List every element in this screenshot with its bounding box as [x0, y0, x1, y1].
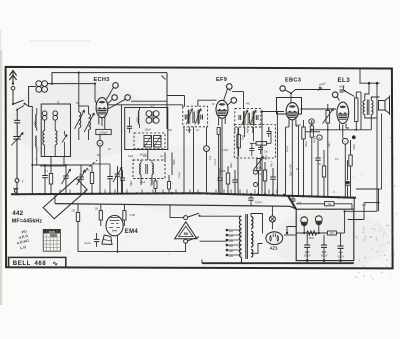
- svg-text:165: 165: [229, 244, 234, 248]
- band switch S1 (aerial): [14, 100, 24, 104]
- svg-text:250: 250: [71, 209, 76, 212]
- wire EM4 cathode down: [117, 236, 119, 252]
- EF9 cathode resistor: [217, 128, 220, 135]
- tone switch blade: [345, 91, 355, 97]
- svg-text:0,1µF: 0,1µF: [286, 145, 289, 152]
- electrolytic can 1: [301, 217, 308, 224]
- wires detector box: [253, 127, 255, 141]
- wire vertical drops to OT: [365, 83, 369, 100]
- oscillator wound coil B: [154, 136, 162, 148]
- oscillator series capacitor: [127, 125, 132, 127]
- dial drive dashed link: [76, 160, 97, 178]
- IFT1 secondary coil: [197, 111, 199, 124]
- svg-text:50µF: 50µF: [186, 129, 192, 132]
- wire OT to speaker: [371, 97, 379, 101]
- IFT1 primary coil: [188, 111, 190, 124]
- resistor R4 mid: [226, 173, 229, 184]
- volume potentiometer: [257, 159, 260, 171]
- svg-text:25µF +40V: 25µF +40V: [290, 164, 293, 176]
- EBC3 base pins: [288, 120, 290, 128]
- mains transformer primary winding: [239, 216, 241, 257]
- svg-text:L.Pot: L.Pot: [270, 161, 273, 167]
- output transformer core: [366, 100, 368, 116]
- IFT2 primary coil: [243, 112, 245, 125]
- wire OT secondary down: [370, 115, 372, 130]
- right section of ground bus: [288, 196, 356, 198]
- EM4 feed resistor left: [99, 211, 102, 220]
- circled node c under EL3: [342, 138, 348, 144]
- svg-text:0,5M: 0,5M: [295, 124, 301, 127]
- oscillator wound coil A: [144, 136, 152, 148]
- svg-text:50: 50: [184, 231, 189, 236]
- svg-text:AZ1: AZ1: [270, 245, 279, 250]
- svg-text:0,05µF: 0,05µF: [99, 131, 108, 135]
- EM4 target shade: [102, 235, 112, 245]
- svg-text:0,1µF: 0,1µF: [255, 200, 262, 204]
- svg-text:0,1: 0,1: [45, 169, 49, 173]
- oscillator top coil pair (circle style): [146, 111, 152, 117]
- capacitor C9 mid: [217, 177, 222, 179]
- wire EL3 cathode down: [342, 133, 344, 139]
- oscillator dashed sub-box: [134, 133, 165, 149]
- trimmer inside box: [62, 135, 67, 143]
- svg-text:ECH3: ECH3: [94, 77, 110, 83]
- bypass capacitor on bus: [248, 197, 253, 199]
- wires oscillator unit: [121, 105, 123, 194]
- wire ECH3 cathode to bus: [99, 135, 101, 141]
- tone capacitor 4000pF: [340, 90, 344, 92]
- wire top rail to output transformer: [360, 82, 380, 84]
- dial lamp: [269, 216, 275, 222]
- rectifier tube AZ1: [266, 232, 283, 245]
- svg-text:EL3: EL3: [338, 77, 351, 84]
- wire antenna down to wave switch: [12, 90, 14, 104]
- oscillator grid resistors to bus: [154, 181, 157, 189]
- mains transformer HT secondary: [251, 217, 253, 229]
- svg-text:0,1µF: 0,1µF: [178, 171, 181, 178]
- wire primary bottom down to bottom rail: [241, 257, 243, 263]
- svg-text:4000: 4000: [339, 86, 345, 89]
- svg-text:1µF: 1µF: [297, 201, 302, 204]
- filter choke resistor wirewound: [307, 231, 317, 235]
- svg-text:50pF: 50pF: [265, 154, 268, 160]
- coil L4 circle pair: [42, 111, 47, 116]
- detector capacitor C9r: [266, 131, 271, 133]
- wire ECH3 anode into IFT1: [182, 105, 184, 106]
- EM4 grid capacitor: [94, 238, 100, 240]
- wire bus2 drop into PSU: [290, 206, 296, 209]
- svg-text:MF=445kHz: MF=445kHz: [12, 219, 43, 225]
- output transformer secondary: [371, 101, 373, 115]
- detector capacitor C8: [258, 147, 263, 149]
- wire EBC3 cathode to bus: [291, 130, 293, 196]
- wire RF coils tops: [79, 105, 89, 107]
- scan smudge top left corner: [30, 40, 90, 42]
- pin tick mark: [162, 76, 166, 80]
- mains switch S2a: [184, 216, 188, 220]
- coil L5 circle pair: [53, 111, 58, 116]
- loudspeaker: [379, 101, 386, 111]
- coupling wire and capacitor top: [291, 90, 331, 94]
- circled node b: [317, 135, 322, 140]
- filter rail inside box: [296, 232, 327, 234]
- svg-text:1M: 1M: [95, 208, 98, 211]
- svg-text:0,1µF: 0,1µF: [84, 241, 91, 245]
- wire rectifier output into PSU box: [287, 227, 296, 234]
- svg-text:4000Ω: 4000Ω: [313, 136, 316, 143]
- wire EF9 plate line: [232, 91, 243, 93]
- wire left of coil pack: [29, 107, 32, 195]
- wire screen rail horizontal: [300, 108, 336, 110]
- heater wire horizontal: [78, 251, 186, 253]
- box bottom junction dots: [306, 259, 309, 262]
- circled node under ECH3: [97, 140, 103, 146]
- wire top AVC line: [52, 73, 167, 84]
- svg-text:0,5M: 0,5M: [130, 214, 136, 217]
- dial lamp leads: [271, 206, 273, 216]
- svg-text:2KΩ: 2KΩ: [150, 105, 155, 108]
- cathode bypass electrolytic bead: [347, 160, 349, 180]
- svg-text:BELL: BELL: [13, 261, 31, 267]
- detector capacitor C7: [249, 148, 254, 150]
- wire bus to mains switch: [170, 206, 183, 218]
- dial cord table: [43, 229, 60, 251]
- output tube EL3: [337, 102, 349, 123]
- wire box coils to lower wire: [50, 157, 52, 166]
- svg-text:EF9: EF9: [216, 77, 227, 83]
- mains switch S2b: [184, 239, 188, 243]
- faint scan speckles inside sheet: [11, 69, 389, 260]
- wire rectifier filament to reservoir: [251, 237, 265, 240]
- oscillator coil LC1: [140, 164, 141, 175]
- svg-text:25KΩ: 25KΩ: [305, 141, 308, 147]
- detector dashed box: [234, 125, 275, 159]
- svg-text:10µF: 10µF: [243, 134, 245, 140]
- svg-text:0,5M: 0,5M: [268, 127, 271, 132]
- svg-text:0,1µF: 0,1µF: [150, 179, 153, 186]
- wire under coil box: [32, 164, 92, 166]
- wire bus to PSU box right corner: [353, 198, 355, 210]
- EBC3 shield box: [277, 98, 302, 115]
- svg-text:5000: 5000: [173, 159, 176, 165]
- bottom heavy rail: [202, 262, 354, 264]
- svg-text:150Ω: 150Ω: [353, 144, 356, 150]
- svg-text:110: 110: [229, 229, 234, 233]
- ECH3 base pins: [98, 117, 100, 125]
- smoothing capacitor 2: [321, 244, 327, 246]
- svg-text:24µF: 24µF: [128, 155, 134, 158]
- svg-text:0,5M: 0,5M: [257, 167, 263, 170]
- svg-text:4Ω: 4Ω: [318, 163, 321, 166]
- svg-text:Ω: Ω: [333, 191, 335, 194]
- coil L7 inside box lower: [55, 131, 57, 145]
- RF coil L8 with trimmer: [79, 112, 81, 128]
- svg-text:BOB: BOB: [49, 230, 55, 234]
- wires IFT1 to bus: [188, 127, 190, 133]
- IF transformer 1 shield box (dashed): [183, 106, 208, 127]
- oscillator box C core: [145, 164, 147, 174]
- svg-text:100: 100: [168, 129, 173, 132]
- resistor R5 mid: [263, 170, 266, 181]
- wire earth terminal to ground bus: [16, 182, 18, 194]
- wire grid line to ECH3: [95, 96, 96, 103]
- pickup terminal 1: [254, 170, 258, 174]
- cathode resistor narrow tall: [355, 98, 358, 122]
- svg-text:1µF: 1µF: [209, 155, 212, 160]
- paper tone wash: [6, 67, 392, 268]
- svg-text:500V: 500V: [304, 254, 311, 258]
- title box BELL 468: [9, 257, 66, 267]
- circled node a: [309, 119, 314, 124]
- volume pot with arrow (tone): [326, 111, 330, 124]
- page left edge scan shading: [0, 50, 2, 305]
- trimmer capacitor T3: [115, 173, 121, 175]
- capacitor C6: [120, 177, 125, 179]
- svg-text:220: 220: [229, 254, 234, 258]
- svg-text:125: 125: [229, 234, 234, 238]
- svg-text:EM4: EM4: [125, 229, 139, 235]
- oscillator unit outer box: [125, 108, 168, 150]
- svg-text:4µF: 4µF: [141, 181, 146, 184]
- oscillator left tight coil: [138, 111, 139, 125]
- ground bus (main horizontal): [11, 193, 296, 209]
- aerial coil L3 lower: [36, 136, 37, 147]
- svg-text:WµF: WµF: [248, 128, 250, 133]
- oscillator coil LC2: [152, 164, 153, 175]
- speaker field lead: [381, 114, 383, 190]
- capacitor on AVC line: [42, 175, 48, 177]
- ECH3 grid cap g4: [125, 95, 131, 101]
- svg-text:10Ω: 10Ω: [264, 151, 269, 154]
- svg-text:50pF: 50pF: [130, 180, 133, 186]
- boxed resistor 150 ohm: [327, 231, 336, 235]
- electrolytic can 2: [315, 216, 322, 223]
- IFT2 side capacitors: [238, 115, 240, 120]
- svg-text:50pF: 50pF: [230, 162, 233, 168]
- svg-text:500V: 500V: [321, 254, 328, 258]
- wire switch to transformer primary top: [200, 215, 242, 217]
- magic eye tube EM4: [106, 215, 123, 235]
- primary tap leads: [227, 229, 242, 231]
- svg-text:2Ω: 2Ω: [296, 168, 299, 171]
- fuse triangle 50: [175, 222, 197, 239]
- wire left of detector box: [219, 127, 221, 175]
- output transformer OT primary: [363, 101, 365, 115]
- smoothing capacitor 1: [304, 244, 310, 246]
- EL3 base pins: [339, 124, 341, 131]
- coil pack screen box: [41, 104, 70, 157]
- wire coil secondary to RF line: [48, 83, 96, 85]
- vertical at IFT1 right: [206, 127, 208, 146]
- HT output wire right of box: [354, 210, 377, 212]
- svg-text:468: 468: [35, 261, 47, 267]
- second bypass capacitor right: [291, 198, 296, 200]
- resistor R8: [322, 166, 325, 177]
- capacitor C13: [315, 157, 320, 159]
- svg-text:190: 190: [229, 249, 234, 253]
- wire EBC3 left connections: [276, 111, 278, 195]
- border frame of schematic sheet: [6, 67, 393, 269]
- svg-text:460: 460: [246, 103, 251, 106]
- scan speckles right margin: [355, 110, 398, 279]
- svg-text:1KΩ: 1KΩ: [330, 232, 335, 235]
- wire from frame top area down to output rail: [359, 69, 361, 84]
- smoothing capacitor 3: [338, 245, 344, 247]
- EM4 feed resistor right: [123, 211, 126, 220]
- EBC3 anode load wires: [296, 126, 299, 160]
- grid leak resistor R6: [302, 127, 305, 139]
- EL3 grid circle: [332, 92, 338, 98]
- power supply box: [296, 209, 354, 260]
- svg-text:50K: 50K: [221, 170, 226, 173]
- svg-text:442: 442: [12, 211, 23, 217]
- primary tap dots: [226, 229, 229, 232]
- wire AVC line drop to oscillator: [166, 73, 168, 129]
- bus junction dots: [16, 193, 18, 195]
- antenna terminal: [11, 86, 15, 90]
- wire right rail vertical: [360, 92, 362, 130]
- resistor R1 vertical: [49, 174, 52, 185]
- dial drive parallelogram: [43, 178, 87, 219]
- EF9 screen cap: [231, 98, 237, 104]
- antenna coupling coil L1: [36, 81, 42, 87]
- IFT2 core: [247, 113, 249, 124]
- ECH3 grid cap g2: [112, 95, 118, 101]
- svg-text:0000: 0000: [35, 120, 37, 126]
- ECH3 cathode boxed label: [96, 129, 111, 134]
- wires IFT2 down: [244, 127, 246, 137]
- diode load resistor tall: [237, 135, 241, 148]
- pickup terminal: [14, 189, 17, 192]
- wires lower right of EL3: [348, 219, 365, 221]
- wire RF coil L8 top to AVC line: [78, 73, 80, 106]
- trimmer capacitor T1: [63, 175, 69, 177]
- EBC3 grid cap wire down: [290, 93, 292, 103]
- IFT1 side capacitors: [184, 115, 186, 120]
- wire HT secondary to rectifier: [251, 214, 263, 234]
- wire IFT1 secondary to EF9 grid: [198, 100, 217, 106]
- IF transformer 2 shield box (dashed): [235, 109, 261, 127]
- wire IFT2 secondary to EBC3 diode: [261, 111, 284, 113]
- resistor R9 right: [349, 155, 352, 166]
- wire tuning cap down to earth terminal: [16, 139, 18, 178]
- extra connection ticks above ground bus: [59, 190, 61, 194]
- svg-text:4µF: 4µF: [362, 204, 367, 207]
- wire switch to padder cap: [16, 110, 18, 120]
- wire across mid section: [92, 163, 110, 165]
- aerial coil L2 tight winding: [36, 115, 37, 128]
- svg-text:100µF: 100µF: [145, 130, 152, 132]
- wire padder to tuning gang: [16, 123, 18, 137]
- bus line lower (B+ rail): [55, 204, 290, 207]
- svg-text:Tel: Tel: [259, 173, 263, 176]
- AF coupling resistor horizontal: [256, 142, 266, 146]
- wire coil to switch: [29, 87, 36, 107]
- cathode bypass dot: [352, 135, 356, 139]
- earth terminal: [15, 179, 19, 183]
- coil L6 inside box lower: [43, 131, 45, 145]
- IF amplifier tube EF9: [216, 100, 228, 118]
- coupling capacitor 100pF label: [318, 87, 322, 91]
- svg-text:500V: 500V: [338, 254, 345, 258]
- RF coil L9 with trimmer: [89, 114, 91, 130]
- pickup terminal 2: [254, 183, 258, 187]
- svg-text:100: 100: [143, 155, 148, 158]
- capacitor C10 mid: [232, 179, 237, 181]
- wire horizontal under output stage: [311, 129, 372, 131]
- resistor in heater drop: [76, 212, 79, 221]
- wire switch S2b to tap column: [200, 240, 227, 242]
- svg-text:0,1µF: 0,1µF: [214, 158, 217, 165]
- resistor R2 vertical: [90, 173, 93, 184]
- ECH3 top cap: [113, 83, 119, 89]
- svg-text:∿: ∿: [53, 260, 59, 267]
- variable tuning capacitor C1: [13, 136, 20, 138]
- svg-text:145: 145: [229, 239, 234, 243]
- svg-text:50µF: 50µF: [328, 141, 331, 147]
- svg-text:EBC3: EBC3: [285, 77, 301, 83]
- EBC3 top cap: [280, 86, 285, 91]
- padder capacitor: [14, 119, 20, 121]
- resistor R7 narrow tall: [310, 126, 313, 137]
- EF9 top cap: [227, 84, 233, 90]
- svg-text:0,5M: 0,5M: [234, 128, 237, 133]
- trimmer capacitor T2: [78, 176, 84, 178]
- wire ECH3 anode horizontals: [108, 104, 183, 106]
- antenna symbol: [12, 71, 14, 84]
- horizontal link wire left components: [40, 165, 66, 167]
- dropper resistor on feed wire: [296, 203, 324, 205]
- IFT2 secondary coil: [252, 112, 254, 125]
- triode-hexode tube ECH3: [96, 98, 108, 118]
- capacitor C5: [107, 176, 113, 178]
- circled node 5 below EF9: [204, 146, 210, 152]
- capacitor C11 mid: [270, 176, 275, 178]
- svg-text:0,5µF: 0,5µF: [222, 149, 229, 152]
- mains transformer core: [245, 214, 247, 259]
- wire EL3 anode to OT: [346, 101, 365, 128]
- oscillator screen box C (dashed): [133, 160, 165, 179]
- svg-text:500Ω: 500Ω: [309, 237, 315, 240]
- detector tube EBC3: [286, 103, 298, 120]
- wire under EBC3 to right: [305, 131, 320, 133]
- IFT1 core: [192, 112, 194, 124]
- EF9 base pins: [218, 118, 220, 126]
